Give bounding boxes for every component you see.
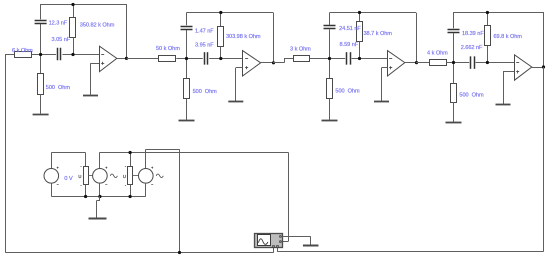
svg-text:3.95 nF: 3.95 nF	[195, 43, 214, 49]
svg-text:69.8 k Ohm: 69.8 k Ohm	[494, 34, 523, 40]
svg-text:303.98 k Ohm: 303.98 k Ohm	[226, 34, 261, 40]
svg-text:3 k Ohm: 3 k Ohm	[290, 46, 311, 52]
svg-text:U: U	[123, 174, 126, 179]
svg-text:3.05 nF: 3.05 nF	[52, 37, 71, 43]
svg-text:U: U	[78, 174, 81, 179]
svg-text:4 k Ohm: 4 k Ohm	[427, 50, 448, 56]
svg-text:350.82 k Ohm: 350.82 k Ohm	[80, 22, 115, 28]
svg-text:38.7 k Ohm: 38.7 k Ohm	[364, 31, 393, 37]
svg-text:24.51 nF: 24.51 nF	[339, 26, 361, 32]
svg-text:6 k Ohm: 6 k Ohm	[12, 48, 33, 54]
svg-text:8.59 nF: 8.59 nF	[340, 42, 359, 48]
svg-text:1.47 nF: 1.47 nF	[195, 29, 214, 35]
svg-text:2.662 nF: 2.662 nF	[461, 45, 483, 51]
svg-text:50 k Ohm: 50 k Ohm	[156, 46, 180, 52]
svg-text:500 Ohm: 500 Ohm	[193, 89, 218, 95]
svg-text:500 Ohm: 500 Ohm	[46, 85, 71, 91]
svg-text:18.39 nF: 18.39 nF	[462, 31, 484, 37]
svg-text:500 Ohm: 500 Ohm	[335, 89, 360, 95]
svg-text:0 V: 0 V	[64, 176, 73, 182]
svg-text:500 Ohm: 500 Ohm	[459, 92, 484, 98]
svg-text:12.3 nF: 12.3 nF	[49, 20, 68, 26]
